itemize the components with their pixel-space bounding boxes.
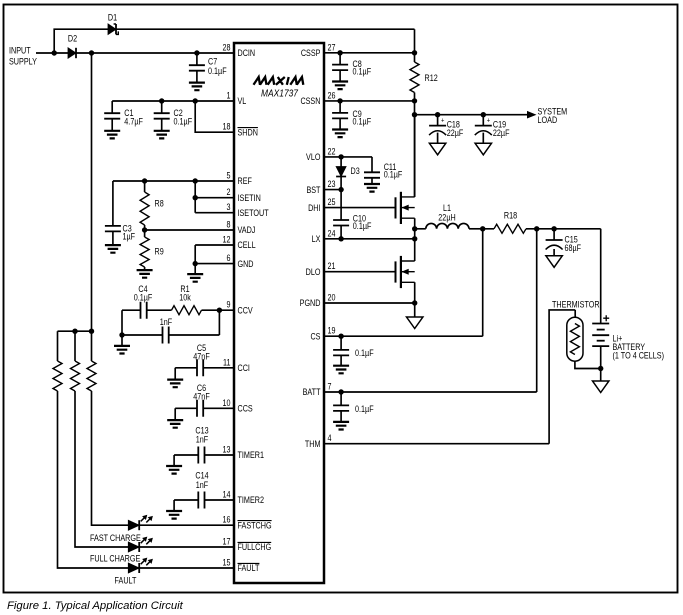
svg-text:FAULT: FAULT xyxy=(115,576,137,586)
svg-text:9: 9 xyxy=(227,300,231,310)
svg-text:VL: VL xyxy=(238,96,247,106)
svg-text:1µF: 1µF xyxy=(123,232,136,242)
svg-text:0.1µF: 0.1µF xyxy=(353,67,372,77)
svg-text:CCS: CCS xyxy=(238,404,253,414)
svg-text:MAX1737: MAX1737 xyxy=(261,89,298,100)
svg-text:18: 18 xyxy=(223,122,231,132)
svg-text:12: 12 xyxy=(223,235,231,245)
svg-text:15: 15 xyxy=(223,558,231,568)
svg-text:0.1µF: 0.1µF xyxy=(355,404,374,414)
svg-text:FAST CHARGE: FAST CHARGE xyxy=(90,533,141,543)
svg-text:ISETOUT: ISETOUT xyxy=(238,208,270,218)
svg-text:SUPPLY: SUPPLY xyxy=(9,57,37,67)
svg-text:C14: C14 xyxy=(195,471,208,481)
svg-text:0.1µF: 0.1µF xyxy=(355,348,374,358)
svg-text:0.1µF: 0.1µF xyxy=(353,117,372,127)
svg-text:19: 19 xyxy=(328,326,336,336)
svg-text:8: 8 xyxy=(227,220,231,230)
svg-text:ISETIN: ISETIN xyxy=(238,193,261,203)
svg-text:0.1µF: 0.1µF xyxy=(353,221,372,231)
svg-text:0.1µF: 0.1µF xyxy=(208,66,227,76)
svg-text:1: 1 xyxy=(227,91,231,101)
svg-text:C7: C7 xyxy=(208,57,217,67)
svg-text:17: 17 xyxy=(223,537,231,547)
svg-text:FULL CHARGE: FULL CHARGE xyxy=(90,554,140,564)
svg-text:1nF: 1nF xyxy=(196,480,209,490)
svg-text:FULLCHG: FULLCHG xyxy=(238,542,272,552)
svg-text:CSSP: CSSP xyxy=(301,48,321,58)
svg-text:23: 23 xyxy=(328,179,336,189)
svg-text:2: 2 xyxy=(227,187,231,197)
svg-text:CCI: CCI xyxy=(238,363,250,373)
svg-text:10k: 10k xyxy=(179,293,191,303)
svg-text:0.1µF: 0.1µF xyxy=(384,170,403,180)
svg-text:LX: LX xyxy=(312,234,321,244)
svg-text:THM: THM xyxy=(305,439,321,449)
svg-text:22µF: 22µF xyxy=(493,128,510,138)
svg-text:25: 25 xyxy=(328,197,336,207)
svg-text:THERMISTOR: THERMISTOR xyxy=(552,300,600,310)
svg-text:TIMER1: TIMER1 xyxy=(238,450,265,460)
svg-text:28: 28 xyxy=(223,43,231,53)
svg-text:5: 5 xyxy=(227,171,231,181)
svg-text:REF: REF xyxy=(238,176,253,186)
svg-text:DHI: DHI xyxy=(308,203,320,213)
svg-text:R12: R12 xyxy=(425,73,438,83)
svg-text:10: 10 xyxy=(223,398,231,408)
svg-text:LOAD: LOAD xyxy=(538,115,558,125)
svg-text:CSSN: CSSN xyxy=(300,96,320,106)
svg-text:BST: BST xyxy=(306,185,321,195)
svg-text:14: 14 xyxy=(223,490,231,500)
svg-text:0.1µF: 0.1µF xyxy=(134,293,153,303)
svg-text:13: 13 xyxy=(223,445,231,455)
svg-text:D3: D3 xyxy=(351,166,360,176)
svg-text:22µH: 22µH xyxy=(438,213,455,223)
svg-text:0.1µF: 0.1µF xyxy=(174,117,193,127)
svg-text:+: + xyxy=(487,118,490,125)
svg-text:47nF: 47nF xyxy=(193,392,210,402)
svg-text:1nF: 1nF xyxy=(196,435,209,445)
svg-text:22µF: 22µF xyxy=(447,128,464,138)
svg-text:R8: R8 xyxy=(155,199,164,209)
svg-text:BATT: BATT xyxy=(303,387,321,397)
svg-text:D1: D1 xyxy=(108,13,117,23)
svg-text:DLO: DLO xyxy=(306,267,321,277)
svg-text:CCV: CCV xyxy=(238,305,253,315)
svg-text:47nF: 47nF xyxy=(193,352,210,362)
svg-text:16: 16 xyxy=(223,515,231,525)
svg-text:26: 26 xyxy=(328,90,336,100)
svg-text:R18: R18 xyxy=(504,211,517,221)
svg-text:24: 24 xyxy=(328,228,336,238)
svg-text:22: 22 xyxy=(328,146,336,156)
svg-text:DCIN: DCIN xyxy=(238,48,256,58)
svg-text:GND: GND xyxy=(238,259,254,269)
svg-text:CELL: CELL xyxy=(238,240,256,250)
svg-text:21: 21 xyxy=(328,261,336,271)
svg-text:FASTCHG: FASTCHG xyxy=(238,520,272,530)
svg-text:D2: D2 xyxy=(68,34,77,44)
svg-text:11: 11 xyxy=(223,357,231,367)
svg-text:20: 20 xyxy=(328,293,336,303)
svg-text:68µF: 68µF xyxy=(565,243,582,253)
svg-text:(1 TO 4 CELLS): (1 TO 4 CELLS) xyxy=(613,351,665,361)
svg-text:VADJ: VADJ xyxy=(238,225,256,235)
svg-text:SHDN: SHDN xyxy=(238,127,258,137)
svg-text:L1: L1 xyxy=(443,203,451,213)
svg-text:INPUT: INPUT xyxy=(9,46,31,56)
svg-text:4: 4 xyxy=(328,433,332,443)
svg-text:FAULT: FAULT xyxy=(238,563,260,573)
svg-text:PGND: PGND xyxy=(300,298,321,308)
svg-text:4.7µF: 4.7µF xyxy=(124,117,143,127)
svg-text:27: 27 xyxy=(328,42,336,52)
svg-text:TIMER2: TIMER2 xyxy=(238,495,265,505)
svg-text:R9: R9 xyxy=(155,247,164,257)
svg-text:6: 6 xyxy=(227,253,231,263)
svg-text:3: 3 xyxy=(227,202,231,212)
svg-text:VLO: VLO xyxy=(306,152,321,162)
svg-text:+: + xyxy=(441,118,444,125)
svg-text:7: 7 xyxy=(328,382,332,392)
svg-text:CS: CS xyxy=(310,331,320,341)
svg-text:1nF: 1nF xyxy=(160,317,173,327)
